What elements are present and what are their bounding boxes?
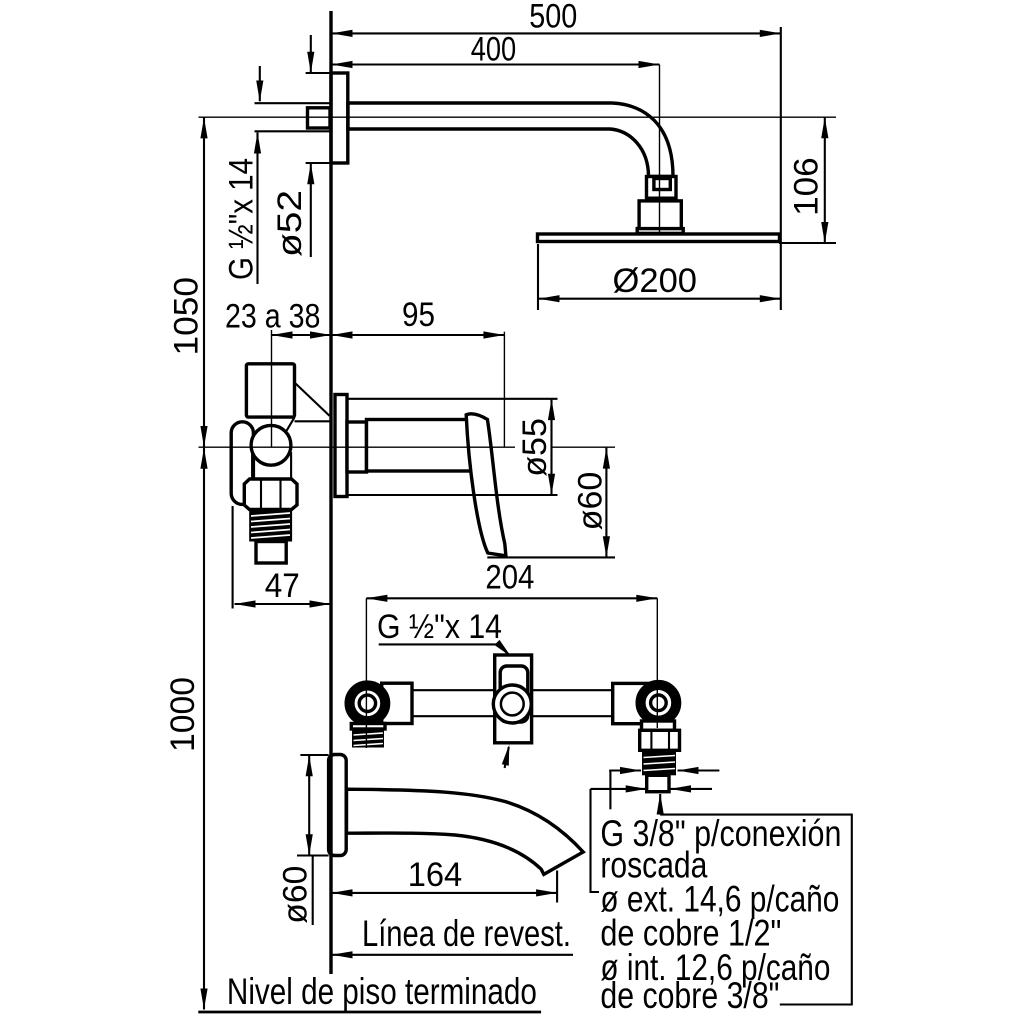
cartridge cylinder xyxy=(367,420,478,472)
dimension 500 xyxy=(331,32,781,34)
right elbow ring xyxy=(642,686,675,719)
bath spout wall flange xyxy=(329,755,347,856)
center fitting body xyxy=(495,655,532,743)
svg-text:106: 106 xyxy=(788,157,826,216)
dimension 1050 xyxy=(203,117,205,447)
extension line 95 right xyxy=(503,332,505,448)
dimension 95 xyxy=(331,334,504,336)
floor line xyxy=(198,1011,541,1014)
svg-text:204: 204 xyxy=(485,558,534,596)
svg-text:Línea de revest.: Línea de revest. xyxy=(362,913,571,954)
svg-text:ø52: ø52 xyxy=(271,190,309,257)
valve thread block xyxy=(249,509,292,541)
center fitting port outer xyxy=(493,685,531,723)
center fitting port inner xyxy=(501,693,524,716)
pipe right segment top xyxy=(532,689,613,691)
arm centerline xyxy=(199,116,837,118)
extension line right 500 xyxy=(780,27,782,310)
right elbow neck xyxy=(642,721,675,730)
head mount cone xyxy=(639,201,681,229)
svg-text:Ø200: Ø200 xyxy=(613,262,698,300)
valve centerline left part xyxy=(199,446,516,448)
svg-text:ø55: ø55 xyxy=(516,418,554,477)
svg-text:ø60: ø60 xyxy=(572,472,610,531)
valve trim escutcheon plate xyxy=(335,395,347,497)
left elbow ring xyxy=(351,687,384,720)
dimension 47 xyxy=(235,603,331,605)
valve ball xyxy=(251,425,291,465)
dimension 23 a 38 xyxy=(272,334,332,336)
shower head connector nut xyxy=(647,177,677,199)
center fitting inner plug xyxy=(500,666,528,722)
dimension o52 flange xyxy=(310,35,312,73)
right elbow inner port xyxy=(651,695,667,711)
svg-text:1000: 1000 xyxy=(164,677,202,752)
shower head plate xyxy=(538,234,780,242)
thread stripes xyxy=(251,513,290,538)
svg-text:G ½"x 14: G ½"x 14 xyxy=(377,608,502,646)
dimension D200 xyxy=(538,298,781,300)
pipe left segment bottom xyxy=(412,715,495,717)
leader up arrow G3/8 xyxy=(659,794,661,815)
right hex facet left xyxy=(650,731,652,751)
svg-text:164: 164 xyxy=(408,856,463,894)
svg-text:47: 47 xyxy=(265,567,300,605)
right hex facet right xyxy=(668,731,670,751)
head center extension line xyxy=(659,65,661,235)
extension line valve center xyxy=(271,330,273,447)
extension line 164 right xyxy=(556,871,558,903)
thread crest line bottom xyxy=(255,130,332,132)
valve diagonal to wall xyxy=(295,383,330,416)
extension line head plate bottom xyxy=(779,242,836,244)
right elbow thread G1/2 xyxy=(642,750,676,775)
extension line 204 left xyxy=(365,598,367,748)
right elbow block xyxy=(613,683,652,723)
extension line 204 right xyxy=(656,598,658,728)
head mount flare xyxy=(637,229,683,234)
thread od arrows xyxy=(609,769,641,771)
right elbow bottom stub G3/8 xyxy=(647,775,669,791)
valve handle lever xyxy=(466,414,506,556)
left elbow flange circle xyxy=(346,682,388,724)
svg-text:Nivel de piso terminado: Nivel de piso terminado xyxy=(227,971,537,1012)
valve tube below ball left xyxy=(251,452,253,480)
thread crest line top xyxy=(255,102,332,104)
bath spout body xyxy=(347,789,584,874)
stub od arrows xyxy=(591,788,647,790)
svg-text:500: 500 xyxy=(529,0,577,35)
valve hex nut xyxy=(244,479,297,510)
svg-text:G ½"x 14: G ½"x 14 xyxy=(223,158,261,280)
valve bottom stub xyxy=(256,542,286,564)
valve top cap xyxy=(246,364,294,417)
hex nut facet left xyxy=(260,480,262,510)
svg-text:de cobre 3/8": de cobre 3/8" xyxy=(600,975,779,1016)
valve lower horizontal to wall xyxy=(295,420,331,422)
valve tube below ball right xyxy=(290,452,292,480)
dimension o60 spout flange xyxy=(300,754,328,756)
leader vertical thread xyxy=(609,771,611,810)
leader vertical stub xyxy=(591,789,600,892)
dimension o55 xyxy=(348,398,558,400)
pipe right segment bottom xyxy=(532,715,613,717)
rough valve left elbow block xyxy=(382,683,412,723)
dimension 1000 xyxy=(203,448,205,1010)
right elbow flange circle xyxy=(637,682,679,724)
valve short diagonal to ball xyxy=(287,417,295,431)
shower head plate bottom thick edge xyxy=(538,241,780,243)
text box border xyxy=(660,815,852,1005)
label G 1/2 x 14 arm thread xyxy=(259,66,261,101)
dimension 106 xyxy=(824,117,826,243)
left elbow thread xyxy=(352,729,384,748)
right elbow hex nut xyxy=(640,730,680,750)
svg-text:400: 400 xyxy=(471,31,517,69)
arm thread nipple G1/2 xyxy=(308,108,331,128)
cartridge step xyxy=(347,422,367,472)
pipe left segment top xyxy=(412,689,495,691)
left elbow collar xyxy=(351,724,385,730)
wall line xyxy=(329,11,332,974)
center fitting lower leader xyxy=(505,747,509,768)
shower arm wall flange xyxy=(331,73,348,163)
svg-text:23 a 38: 23 a 38 xyxy=(225,297,320,335)
extension line 47 left xyxy=(232,506,234,609)
valve left stadium cap xyxy=(231,422,253,505)
svg-text:1050: 1050 xyxy=(168,277,206,356)
connector strip xyxy=(649,198,673,201)
dimension 204 xyxy=(366,597,657,599)
dimension 400 xyxy=(331,63,660,65)
shower arm pipe with bend xyxy=(348,103,673,177)
svg-text:95: 95 xyxy=(402,296,435,334)
nut inner facet xyxy=(654,179,670,190)
hex nut facet right xyxy=(279,480,281,510)
dimension o60 handle xyxy=(605,448,607,558)
valve centerline right part xyxy=(552,446,615,448)
svg-text:ø60: ø60 xyxy=(277,866,315,924)
left elbow inner port xyxy=(359,695,375,711)
dimension 164 xyxy=(331,892,557,894)
extension line plate left xyxy=(537,244,539,310)
linea de revest leader xyxy=(331,954,573,956)
